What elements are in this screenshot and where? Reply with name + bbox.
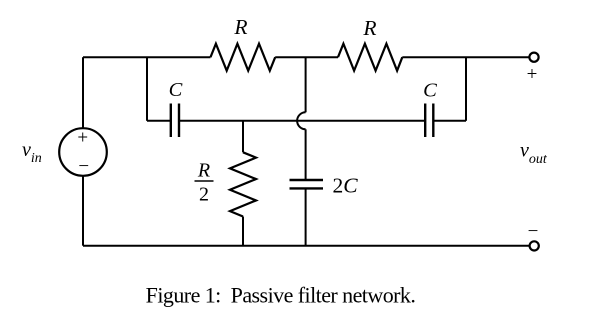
svg-text:R: R: [233, 15, 247, 39]
resistor R3 (R/2, vertical): [230, 152, 256, 216]
svg-text:2C: 2C: [333, 174, 359, 198]
svg-text:R: R: [362, 16, 376, 40]
svg-text:C: C: [169, 79, 183, 101]
svg-text:−: −: [78, 156, 89, 177]
wire: middle vertical lower (hop to 2C): [305, 129, 307, 180]
svg-text:Figure 1: Passive filter netw: Figure 1: Passive filter network.: [146, 283, 416, 308]
wire: bottom rail: [83, 245, 529, 247]
wire: capacitor row middle segment: [179, 120, 425, 122]
wire: R3 vertical lower stub: [242, 217, 244, 246]
wire: capacitor row right stub: [433, 120, 466, 122]
wire: middle vertical below 2C: [305, 188, 307, 245]
svg-text:C: C: [423, 80, 437, 102]
svg-text:+: +: [77, 128, 88, 149]
wire: top rail right segment: [402, 56, 529, 58]
wire: left vertical below source: [82, 176, 84, 246]
svg-text:vout: vout: [520, 140, 548, 168]
resistor R2 (top right R): [338, 44, 402, 71]
wire hop: crossover arc over capacitor row: [297, 112, 306, 129]
svg-text:−: −: [528, 221, 539, 242]
wire: top rail between resistors: [275, 56, 338, 58]
svg-text:2: 2: [199, 184, 209, 206]
wire: capacitor row left stub: [147, 120, 171, 122]
terminal: output + (open circle): [529, 53, 538, 62]
wire: right vertical from top rail to capacitor row: [465, 57, 467, 121]
resistor R1 (top left R): [211, 44, 276, 71]
voltage source V1 circle: [59, 128, 107, 176]
wire: left vertical above source: [82, 57, 84, 128]
svg-text:+: +: [527, 64, 538, 85]
wire: R3 vertical upper stub: [242, 121, 244, 153]
capacitor C1 (left C) plates: [170, 104, 172, 138]
capacitor C3 (2C) plates: [290, 179, 324, 181]
svg-text:vin: vin: [22, 139, 42, 166]
svg-text:R: R: [197, 160, 210, 182]
terminal: output - (open circle): [530, 241, 539, 250]
wire: middle vertical upper (top rail to hop): [305, 57, 307, 112]
wire: top rail left segment: [83, 56, 211, 58]
wire: branch vertical from top rail down to capacitor row: [146, 57, 148, 121]
capacitor C2 (right C) plates: [424, 104, 426, 138]
